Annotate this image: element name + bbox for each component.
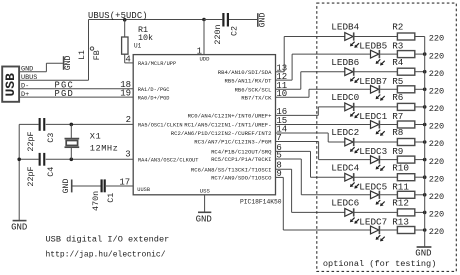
- svg-text:17: 17: [119, 177, 130, 187]
- svg-text:RC2/AN6/P1D/C12IN2-/CUREF/INT2: RC2/AN6/P1D/C12IN2-/CUREF/INT2: [171, 130, 272, 137]
- svg-text:220n: 220n: [213, 24, 223, 44]
- svg-text:U1: U1: [134, 43, 142, 50]
- svg-text:LEDB5: LEDB5: [359, 41, 387, 52]
- svg-text:RA5/OSC1/CLKIN: RA5/OSC1/CLKIN: [138, 123, 183, 129]
- svg-text:RC6/AN8/SS/T13CKI/T1OSCI: RC6/AN8/SS/T13CKI/T1OSCI: [191, 166, 272, 173]
- svg-text:RB6/SCK/SCL: RB6/SCK/SCL: [235, 86, 272, 93]
- svg-text:http://jap.hu/electronic/: http://jap.hu/electronic/: [46, 250, 166, 259]
- svg-text:R7: R7: [392, 111, 403, 122]
- svg-text:X1: X1: [90, 131, 101, 141]
- svg-text:470n: 470n: [91, 191, 101, 211]
- svg-text:GND: GND: [415, 248, 431, 258]
- svg-text:RB7/TX/CK: RB7/TX/CK: [241, 94, 272, 101]
- svg-text:USB digital I/O extender: USB digital I/O extender: [46, 234, 170, 244]
- svg-text:10k: 10k: [138, 33, 153, 43]
- svg-text:C4: C4: [46, 167, 56, 177]
- svg-text:220: 220: [429, 122, 444, 132]
- svg-text:R8: R8: [392, 127, 403, 138]
- svg-text:RC1/AN5/C12IN1-/INT1/UREF-: RC1/AN5/C12IN1-/INT1/UREF-: [184, 122, 271, 129]
- svg-text:GND: GND: [21, 65, 33, 73]
- svg-text:RA4/AN3/OSC2/CLKOUT: RA4/AN3/OSC2/CLKOUT: [138, 158, 198, 164]
- svg-text:RC5/CCP1/P1A/T0CKI: RC5/CCP1/P1A/T0CKI: [211, 156, 271, 163]
- svg-text:GND: GND: [196, 215, 212, 225]
- svg-text:R9: R9: [392, 146, 403, 157]
- svg-text:RB4/AN10/SDI/SDA: RB4/AN10/SDI/SDA: [218, 69, 272, 76]
- svg-text:USS: USS: [200, 187, 211, 194]
- svg-text:GND: GND: [64, 55, 73, 70]
- svg-text:22pF: 22pF: [26, 166, 36, 186]
- svg-text:LEDC6: LEDC6: [331, 198, 359, 209]
- svg-text:R12: R12: [392, 198, 409, 209]
- svg-text:RC3/AN7/P1C/C12IN3-/PGM: RC3/AN7/P1C/C12IN3-/PGM: [194, 139, 271, 146]
- svg-text:L1: L1: [78, 50, 87, 60]
- svg-text:LEDC3: LEDC3: [359, 146, 387, 157]
- svg-text:220: 220: [429, 210, 444, 220]
- svg-text:220: 220: [429, 192, 444, 202]
- svg-text:C2: C2: [230, 26, 240, 36]
- svg-text:LEDC5: LEDC5: [359, 181, 387, 192]
- svg-text:3: 3: [125, 149, 130, 159]
- svg-text:220: 220: [429, 34, 444, 44]
- svg-text:RB5/AN11/RX/DT: RB5/AN11/RX/DT: [225, 77, 273, 84]
- svg-text:R5: R5: [392, 76, 403, 87]
- svg-text:220: 220: [429, 51, 444, 61]
- svg-text:LEDC4: LEDC4: [331, 162, 359, 173]
- svg-text:220: 220: [429, 104, 444, 114]
- svg-text:22pF: 22pF: [26, 131, 36, 151]
- svg-text:R10: R10: [392, 162, 409, 173]
- svg-text:RC7/AN9/SDO/T1OSCO: RC7/AN9/SDO/T1OSCO: [211, 175, 272, 182]
- svg-text:LEDC7: LEDC7: [359, 217, 387, 228]
- svg-text:LEDB6: LEDB6: [331, 57, 359, 68]
- svg-text:USB: USB: [3, 73, 18, 97]
- svg-text:R11: R11: [392, 181, 409, 192]
- svg-text:220: 220: [429, 174, 444, 184]
- svg-text:D+: D+: [21, 91, 29, 99]
- svg-text:LEDB7: LEDB7: [359, 76, 387, 87]
- svg-text:LEDB4: LEDB4: [331, 22, 359, 33]
- svg-text:R4: R4: [392, 57, 404, 68]
- svg-text:RA3/MCLR/UPP: RA3/MCLR/UPP: [138, 61, 176, 67]
- svg-text:GND: GND: [62, 179, 71, 194]
- svg-text:220: 220: [429, 87, 444, 97]
- svg-text:RA0/D+/PGD: RA0/D+/PGD: [138, 95, 170, 101]
- svg-text:RC4/P1B/C12OUT/SRQ: RC4/P1B/C12OUT/SRQ: [211, 149, 272, 156]
- svg-text:FB: FB: [93, 50, 102, 60]
- svg-text:PGD: PGD: [55, 89, 74, 99]
- svg-text:R6: R6: [392, 92, 403, 103]
- svg-text:RC0/AN4/C12IN+/INT0/UREF+: RC0/AN4/C12IN+/INT0/UREF+: [188, 113, 273, 120]
- svg-text:UUSB: UUSB: [137, 187, 150, 193]
- svg-text:UBUS(+5UDC): UBUS(+5UDC): [88, 11, 148, 21]
- svg-text:optional (for testing): optional (for testing): [323, 259, 436, 269]
- svg-text:D-: D-: [21, 83, 29, 91]
- svg-text:RA1/D-/PGC: RA1/D-/PGC: [138, 87, 170, 93]
- svg-text:12MHz: 12MHz: [90, 144, 119, 154]
- svg-text:220: 220: [429, 157, 444, 167]
- svg-text:GND: GND: [259, 13, 268, 28]
- svg-text:C3: C3: [46, 133, 56, 143]
- svg-text:R13: R13: [392, 217, 409, 228]
- svg-text:PIC18F14K50: PIC18F14K50: [240, 199, 282, 206]
- svg-text:LEDC0: LEDC0: [331, 92, 359, 103]
- svg-text:2: 2: [126, 115, 131, 125]
- svg-text:LEDC1: LEDC1: [359, 111, 387, 122]
- svg-text:R3: R3: [392, 41, 403, 52]
- svg-text:GND: GND: [11, 222, 27, 232]
- svg-text:UDD: UDD: [199, 56, 210, 63]
- svg-text:220: 220: [429, 139, 444, 149]
- svg-text:C1: C1: [106, 193, 116, 203]
- svg-text:R2: R2: [392, 22, 403, 33]
- svg-text:LEDC2: LEDC2: [331, 127, 359, 138]
- svg-text:220: 220: [429, 227, 444, 237]
- svg-text:4: 4: [125, 54, 130, 64]
- svg-text:220: 220: [429, 69, 444, 79]
- svg-text:19: 19: [120, 89, 131, 99]
